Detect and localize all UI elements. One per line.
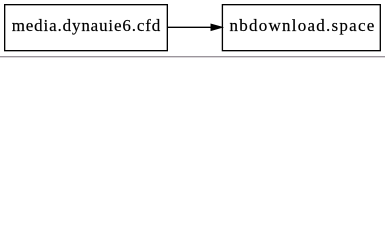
svg-text:media.dynauie6.cfd: media.dynauie6.cfd [12, 16, 161, 35]
svg-text:nbdownload.space: nbdownload.space [230, 16, 375, 35]
